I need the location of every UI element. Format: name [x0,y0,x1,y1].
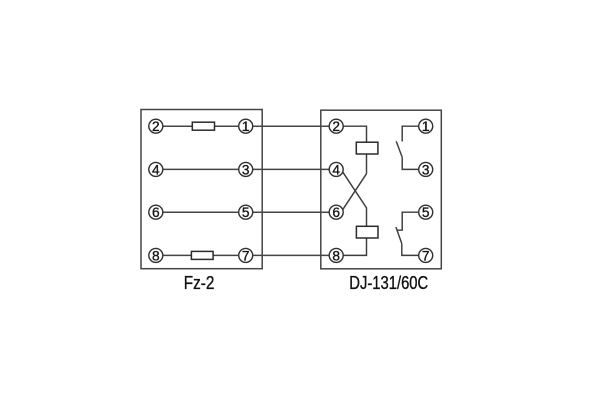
terminal 8 (Fz-2) [149,248,163,263]
svg-text:4: 4 [152,162,160,177]
contact 1-3 wire to 3 [402,158,426,170]
terminal 5 (Fz-2) [239,205,253,220]
terminal 7 (Fz-2) [239,248,253,263]
wire row1 Fz-2 internal (2 to 1) [156,125,246,127]
svg-text:8: 8 [332,248,340,263]
svg-text:2: 2 [152,119,160,134]
svg-text:7: 7 [242,248,250,263]
resistor bottom (between 8 and 7) [191,251,213,259]
wire interconnect row3 (5 to 6) [246,211,336,213]
terminal 4 (DJ) [329,162,343,177]
terminal 6 (DJ) [329,205,343,220]
svg-text:6: 6 [332,205,340,220]
terminal 6 (Fz-2) [149,205,163,220]
wire 2 to coil1 [336,126,367,174]
wire interconnect row4 (7 to 8) [246,254,336,256]
svg-text:1: 1 [242,119,250,135]
contact 5-7 blade [396,227,402,244]
svg-text:5: 5 [242,205,250,220]
terminal 7 (DJ) [419,248,433,263]
wire coil1 to 6 (diagonal) [343,174,367,210]
svg-text:8: 8 [152,248,160,263]
terminal 8 (DJ) [329,248,343,263]
contact 5-7 fixed wire from 5 with tick [397,212,425,230]
wire 4 to coil2 to 8 [336,172,367,256]
terminal 1 (Fz-2) [239,119,253,135]
terminal 4 (Fz-2) [149,162,163,177]
svg-text:DJ-131/60C: DJ-131/60C [349,273,428,293]
resistor top (between 2 and 1) [192,122,214,130]
svg-text:3: 3 [242,162,250,177]
svg-text:4: 4 [332,162,340,177]
coil K2 [356,226,378,238]
contact 1-3 fixed wire from 1 [402,126,426,141]
contact 5-7 wire to 7 [402,244,426,256]
svg-text:7: 7 [422,248,430,263]
terminal 2 (Fz-2) [149,119,163,134]
terminal 3 (Fz-2) [239,162,253,177]
terminal 5 (DJ) [419,205,433,220]
svg-text:5: 5 [422,205,430,220]
svg-text:1: 1 [422,119,430,135]
terminal 3 (DJ) [419,162,433,177]
svg-text:2: 2 [332,119,340,134]
terminal 2 (DJ) [329,119,343,134]
wire row4 Fz-2 internal (8 to 7) [156,254,246,256]
svg-text:6: 6 [152,205,160,220]
wire row2 Fz-2 internal (4 to 3) [156,168,246,170]
block Fz-2 outline [141,110,262,269]
block DJ-131/60C outline [321,110,442,269]
contact 1-3 blade [396,141,402,158]
wire row3 Fz-2 internal (6 to 5) [156,211,246,213]
svg-text:Fz-2: Fz-2 [184,273,215,293]
svg-text:3: 3 [422,162,430,177]
wire interconnect row1 (1 to 2) [246,125,336,127]
coil K1 [356,142,378,154]
wire interconnect row2 (3 to 4) [246,168,336,170]
terminal 1 (DJ) [419,119,433,135]
